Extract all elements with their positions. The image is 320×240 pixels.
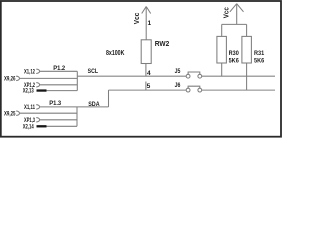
svg-text:X2,14: X2,14	[23, 123, 34, 130]
svg-text:P1.3: P1.3	[49, 100, 61, 107]
svg-text:8x100K: 8x100K	[106, 50, 124, 57]
connector symbol X9,26	[16, 76, 19, 80]
wire SCL bus left segment	[77, 75, 186, 77]
connector symbol XP1,3	[36, 118, 39, 122]
border frame (decorative)	[1, 1, 281, 137]
resistor RW2	[141, 40, 151, 64]
wire SDA bus left segment	[109, 89, 187, 91]
svg-text:R31: R31	[254, 50, 265, 57]
wire R30 to SCL	[221, 63, 223, 76]
svg-text:5K6: 5K6	[254, 58, 265, 65]
wire XP1,3 stub	[40, 119, 77, 121]
wire merge vertical SCL group	[76, 71, 78, 90]
svg-text:X1,12: X1,12	[24, 68, 35, 75]
jumper J5	[186, 72, 202, 78]
wire branch to R30 R31	[222, 24, 247, 36]
svg-text:RW2: RW2	[155, 39, 170, 48]
wire SDA bus right segment	[202, 89, 276, 91]
wire X1,12 stub	[40, 70, 78, 72]
svg-text:1: 1	[148, 20, 152, 27]
power Vcc left	[142, 7, 151, 40]
pin 4 wire RW2	[145, 64, 147, 77]
power Vcc right	[230, 4, 244, 25]
svg-text:5: 5	[147, 83, 151, 90]
svg-text:R30: R30	[229, 50, 240, 57]
svg-text:X2,13: X2,13	[23, 88, 34, 95]
wire SCL bus right segment	[202, 75, 276, 77]
svg-text:X1,11: X1,11	[24, 104, 35, 111]
svg-text:J6: J6	[175, 83, 181, 89]
svg-text:X9,26: X9,26	[4, 76, 16, 83]
jumper J6	[186, 86, 202, 92]
wire X2,14 stub	[47, 125, 78, 127]
wire merge vertical SDA group	[76, 107, 78, 126]
connector bar X2,14	[37, 125, 47, 127]
wire XP1,2 stub	[40, 84, 78, 86]
wire X2,13 stub	[47, 90, 78, 92]
wire SDA riser	[108, 90, 110, 107]
resistor R30	[217, 36, 227, 63]
connector symbol X1,11	[36, 105, 39, 109]
connector symbol X1,12	[36, 69, 39, 73]
svg-text:Vcc: Vcc	[222, 7, 231, 18]
wire R31 to SDA	[246, 63, 248, 90]
wire X9,26 stub	[20, 77, 78, 79]
wire X1,11 stub / SDA feed	[40, 106, 109, 108]
connector symbol X9,25	[16, 111, 19, 115]
wire X9,25 stub	[20, 112, 78, 114]
connector symbol XP1,2	[36, 83, 39, 87]
connector bar X2,13	[37, 89, 47, 91]
svg-text:SCL: SCL	[88, 68, 98, 75]
resistor R31	[242, 36, 252, 63]
svg-text:Vcc: Vcc	[132, 13, 141, 25]
svg-text:J5: J5	[175, 69, 181, 75]
svg-text:X9,25: X9,25	[4, 110, 16, 117]
pin 5 wire RW2	[145, 82, 147, 91]
svg-text:5K6: 5K6	[229, 58, 240, 65]
